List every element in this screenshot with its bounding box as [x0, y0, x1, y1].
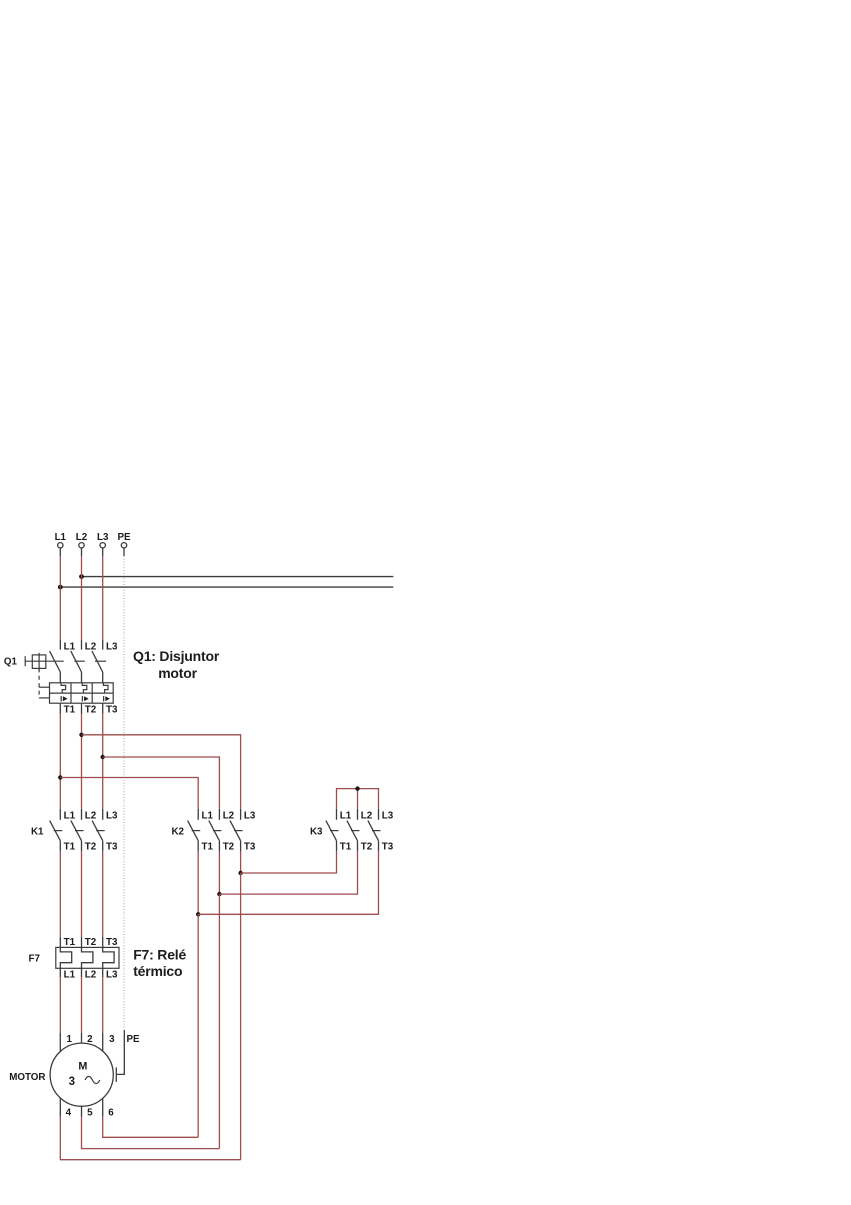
- motor PE frame bar: [115, 1067, 117, 1082]
- wire T2 Q1 to K1: [81, 714, 83, 809]
- svg-text:6: 6: [108, 1108, 114, 1119]
- svg-text:L3: L3: [244, 811, 256, 822]
- svg-text:K2: K2: [171, 826, 184, 837]
- motor bottom stub 6: [102, 1098, 104, 1117]
- relay F7 heater element 3: [103, 947, 114, 968]
- breaker Q1 pole 1 contact: [50, 640, 61, 683]
- svg-text:5: 5: [87, 1108, 93, 1119]
- contactor K2 pole 1: [188, 809, 214, 853]
- wire L2 to Q1: [81, 556, 83, 640]
- contactor K1 pole 2: [71, 809, 97, 853]
- svg-text:T1: T1: [64, 842, 76, 853]
- wire L1 to Q1: [59, 556, 61, 640]
- wire L3 to Q1: [102, 556, 104, 640]
- svg-text:L1: L1: [64, 811, 76, 822]
- relay F7 heater element 2: [82, 947, 93, 968]
- svg-text:L1: L1: [64, 642, 76, 653]
- wire T1 Q1 to K1: [59, 714, 61, 809]
- svg-text:L2: L2: [85, 970, 97, 981]
- wire control bus upper: [82, 576, 394, 578]
- svg-text:Q1: Disjuntor: Q1: Disjuntor: [133, 648, 220, 664]
- svg-text:L2: L2: [361, 811, 373, 822]
- svg-text:T2: T2: [85, 705, 97, 716]
- motor bottom stub 5: [81, 1106, 83, 1117]
- contactor K3 pole 1: [326, 809, 352, 853]
- svg-text:L3: L3: [106, 642, 118, 653]
- node bus lower tap on L1: [58, 585, 63, 590]
- svg-text:T1: T1: [64, 937, 76, 948]
- breaker Q1 trip unit box: [50, 683, 114, 703]
- wire K2 column 3 down to motor run: [240, 873, 242, 1160]
- wire K2 T3 to K3 T1: [241, 851, 337, 873]
- svg-text:T1: T1: [64, 705, 76, 716]
- wire T3 Q1 to K1: [102, 714, 104, 809]
- svg-text:3: 3: [69, 1076, 75, 1088]
- breaker Q1 linkage dash pole2: [74, 660, 85, 662]
- node tap L2 to K2 feed: [79, 733, 83, 737]
- wire K1 T1 to F7: [59, 851, 61, 937]
- wire K3 star bridge center drop: [357, 789, 359, 809]
- terminal L1: [55, 532, 67, 556]
- terminal L3: [97, 532, 109, 556]
- svg-text:L1: L1: [64, 970, 76, 981]
- breaker Q1 pole 3 bottom stub: [102, 703, 104, 713]
- svg-text:L2: L2: [85, 642, 97, 653]
- svg-text:T3: T3: [244, 842, 256, 853]
- wire control bus lower: [60, 586, 393, 588]
- svg-text:T2: T2: [361, 842, 373, 853]
- svg-text:1: 1: [66, 1034, 72, 1045]
- svg-text:PE: PE: [126, 1034, 140, 1045]
- wire L2 feed to K2 pole L3: [82, 735, 241, 809]
- svg-text:T2: T2: [223, 842, 235, 853]
- svg-text:T3: T3: [106, 842, 118, 853]
- svg-text:L3: L3: [106, 970, 118, 981]
- breaker Q1 thermal element 2: [82, 683, 87, 693]
- svg-text:T1: T1: [340, 842, 352, 853]
- motor top stub 2: [81, 1033, 83, 1044]
- breaker Q1 trip linkage dashed: [39, 668, 49, 698]
- breaker Q1 magnetic element 1: [61, 696, 67, 701]
- motor top stub 1: [59, 1033, 61, 1052]
- terminal L2: [76, 532, 88, 556]
- svg-text:K3: K3: [310, 826, 323, 837]
- svg-text:F7: Relé: F7: Relé: [133, 946, 186, 962]
- wire motor 5 return to K2 column 2: [82, 1117, 220, 1149]
- svg-text:MOTOR: MOTOR: [9, 1072, 45, 1083]
- node tap L1 to K2 feed: [58, 775, 62, 779]
- wire K2 T1 to K3 T3: [198, 851, 378, 914]
- wire F7 to motor 2: [81, 977, 83, 1033]
- breaker Q1 linkage dash pole3: [95, 660, 106, 662]
- node tap L3 to K2 feed: [101, 755, 105, 759]
- annotation Q1: Disjuntor motor: [133, 648, 220, 681]
- relay F7 pole 1 bottom stub: [59, 968, 61, 977]
- node K2 T3 / K3 T1 junction: [238, 871, 242, 875]
- wire K2 T3 drop: [240, 851, 242, 873]
- svg-text:L1: L1: [55, 532, 67, 543]
- svg-text:Q1: Q1: [4, 657, 18, 668]
- wire motor 4 return to K2 column 3: [60, 1117, 240, 1160]
- svg-text:T3: T3: [106, 937, 118, 948]
- node K3 star point: [355, 786, 359, 790]
- motor body circle: [50, 1043, 113, 1106]
- relay F7 pole 2 bottom stub: [81, 968, 83, 977]
- wire K2 T1 drop: [197, 851, 199, 914]
- svg-text:PE: PE: [117, 532, 131, 543]
- node K2 T1 / K3 T3 junction: [196, 912, 200, 916]
- svg-text:T3: T3: [106, 705, 118, 716]
- contactor K2 pole 2: [209, 809, 235, 853]
- contactor K3 pole 3: [368, 809, 394, 853]
- svg-text:térmico: térmico: [133, 963, 182, 979]
- svg-text:motor: motor: [158, 665, 197, 681]
- wire K2 column 2 down to motor run: [218, 894, 220, 1149]
- svg-text:F7: F7: [29, 954, 41, 965]
- wire F7 to motor 1: [59, 977, 61, 1033]
- relay F7 pole 2 top stub: [81, 937, 83, 948]
- svg-text:L3: L3: [382, 811, 394, 822]
- motor PE drop wire: [117, 1030, 124, 1074]
- svg-text:T1: T1: [202, 842, 214, 853]
- annotation F7: Rele termico: [133, 946, 186, 979]
- wire motor 6 return to K2 column 1: [103, 1117, 199, 1138]
- svg-text:L2: L2: [76, 532, 88, 543]
- svg-text:4: 4: [66, 1108, 72, 1119]
- wire F7 to motor 3: [102, 977, 104, 1033]
- breaker Q1 pole 2 bottom stub: [81, 703, 83, 713]
- breaker Q1 pole 1 bottom stub: [59, 703, 61, 713]
- contactor K1 pole 1: [50, 809, 76, 853]
- svg-text:T3: T3: [382, 842, 394, 853]
- wire L1 feed to K2 pole L1: [60, 778, 198, 809]
- breaker Q1 thermal element 3: [103, 683, 108, 693]
- contactor K1 pole 3: [92, 809, 118, 853]
- wire K1 T2 to F7: [81, 851, 83, 937]
- terminal PE: [117, 532, 131, 556]
- wire PE dotted vertical: [123, 556, 125, 1032]
- contactor K2 pole 3: [230, 809, 256, 853]
- motor top stub 3: [102, 1033, 104, 1052]
- relay F7 pole 3 bottom stub: [102, 968, 104, 977]
- svg-text:K1: K1: [31, 826, 44, 837]
- wire K2 T2 drop: [218, 851, 220, 894]
- relay F7 heater element 1: [60, 947, 71, 968]
- relay F7 pole 3 top stub: [102, 937, 104, 948]
- breaker Q1 pole 2 contact: [71, 640, 82, 683]
- svg-text:L3: L3: [106, 811, 118, 822]
- wire K1 T3 to F7: [102, 851, 104, 937]
- svg-text:3: 3: [109, 1034, 115, 1045]
- breaker Q1 magnetic element 3: [104, 696, 110, 701]
- contactor K3 pole 2: [347, 809, 373, 853]
- svg-text:L3: L3: [97, 532, 109, 543]
- breaker Q1 thermal element 1: [61, 683, 66, 693]
- wire K3 star bridge: [337, 789, 379, 809]
- svg-text:T2: T2: [85, 937, 97, 948]
- svg-text:L2: L2: [223, 811, 235, 822]
- relay F7 box: [56, 947, 119, 968]
- motor sine symbol: [85, 1076, 100, 1083]
- svg-text:L1: L1: [340, 811, 352, 822]
- relay F7 pole 1 top stub: [59, 937, 61, 948]
- breaker Q1 magnetic element 2: [82, 696, 88, 701]
- svg-text:L1: L1: [202, 811, 214, 822]
- wire L3 feed to K2 pole L2: [103, 757, 220, 809]
- svg-text:T2: T2: [85, 842, 97, 853]
- breaker Q1 pole 3 contact: [92, 640, 103, 683]
- node bus upper tap on L2: [79, 574, 84, 579]
- svg-text:M: M: [78, 1061, 87, 1073]
- wire K2 column 1 down to motor run: [197, 914, 199, 1137]
- svg-text:L2: L2: [85, 811, 97, 822]
- breaker Q1 operator square: [25, 653, 64, 671]
- wire K2 T2 to K3 T2: [219, 851, 357, 894]
- motor bottom stub 4: [59, 1098, 61, 1117]
- node K2 T2 / K3 T2 junction: [217, 892, 221, 896]
